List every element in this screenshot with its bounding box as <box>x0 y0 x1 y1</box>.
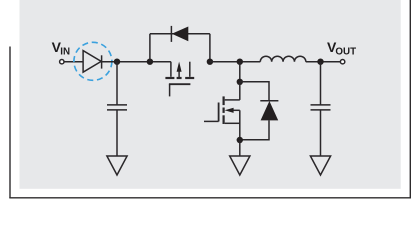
wire to catch diode top <box>240 82 269 101</box>
ground (switch) <box>230 156 250 175</box>
terminal VOUT <box>340 60 344 64</box>
wire drain down <box>239 82 241 100</box>
transistor Q2 synchronous switch (vertical MOSFET) <box>204 96 240 140</box>
ground (input) <box>107 156 127 175</box>
wire catch diode bottom <box>240 120 269 139</box>
dashed highlight circle around ideal diode <box>74 42 112 80</box>
wire source to ground <box>239 140 241 156</box>
wire inductor to VOUT <box>306 61 341 63</box>
catch diode D3 (cathode up) <box>260 101 278 121</box>
wire up-right of body diode <box>209 34 211 62</box>
wire diode to input node <box>101 61 171 63</box>
ground (output) <box>310 156 330 175</box>
transistor Q1 top switch (lateral MOSFET) <box>165 62 194 97</box>
wire up-left of body diode <box>149 34 151 62</box>
body diode D2 (cathode left) <box>171 26 188 42</box>
figure frame right border <box>409 0 411 199</box>
background panel <box>20 0 401 189</box>
wire VIN to ideal diode <box>64 61 83 63</box>
node input cap junction <box>114 59 120 65</box>
wire SW down <box>239 62 241 82</box>
terminal VIN <box>60 60 64 64</box>
node catch diode junction <box>237 79 243 85</box>
capacitor COUT <box>311 62 331 156</box>
node source junction <box>237 137 243 143</box>
node switch left <box>147 59 153 65</box>
node SW <box>237 59 243 65</box>
ideal diode D1 (inside dashed circle) <box>83 51 102 73</box>
wire body diode horizontal <box>150 33 210 35</box>
svg-text:IN: IN <box>60 47 70 58</box>
label VOUT <box>327 39 356 58</box>
figure frame left border <box>9 47 11 198</box>
figure frame bottom border <box>9 197 411 199</box>
label VIN <box>52 39 71 58</box>
capacitor CIN <box>107 62 127 156</box>
svg-text:OUT: OUT <box>335 47 356 58</box>
wire switch to SW node <box>210 61 260 63</box>
inductor L1 <box>260 56 306 62</box>
node switch right <box>207 59 213 65</box>
node output <box>317 59 323 65</box>
